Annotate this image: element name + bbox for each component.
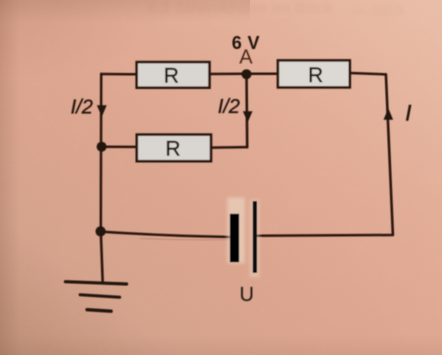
wire: top left horizontal (corner to R1) [101,73,137,76]
wire: middle branch node to R2 [102,145,137,148]
svg-text:I/2: I/2 [218,96,240,118]
node: bottom left junction [96,226,106,236]
svg-text:I: I [405,101,411,126]
arrow: I/2 down (left branch) [97,105,107,117]
wire: ground stem [101,231,103,282]
wire: R3 to top-right corner [350,73,386,74]
battery U (voltage source) [227,198,259,278]
arrow: I/2 down (middle branch) [243,111,253,122]
svg-text:R: R [165,138,180,161]
resistor R2 (middle) [137,135,211,162]
battery negative plate (thick short bar) [230,214,239,262]
svg-text:R: R [308,64,323,87]
svg-text:A: A [239,47,253,69]
wire: R2 to middle corner [211,146,247,149]
node A (junction dot) [242,69,252,79]
wire: left vertical (top corner to bottom-left node) [100,74,103,232]
battery positive plate (thin long bar) [253,201,257,273]
svg-text:6.2 Stromkreise im Blick: 6.2 Stromkreise im Blick [148,0,333,17]
wire: bottom right (corner to battery + plate) [257,234,393,237]
wire: middle vertical (corner up to node A) [245,74,248,147]
wire: node A to R3 [247,73,279,76]
svg-text:im Blick: im Blick [352,2,406,18]
arrow: I up (right branch) [384,108,394,120]
svg-text:I/2: I/2 [71,97,93,119]
ground symbol [65,282,126,312]
resistor R3 (top right) [278,60,350,87]
svg-text:6.2: 6.2 [55,0,73,11]
wire: right vertical [386,74,393,235]
wire: bottom left (battery - plate to bottom-left node) [101,232,231,237]
svg-text:U: U [240,284,254,306]
wire: R1 to node A [209,73,246,76]
svg-text:R: R [164,64,179,87]
node: left middle junction [97,142,107,152]
resistor R1 (top left) [137,62,210,88]
